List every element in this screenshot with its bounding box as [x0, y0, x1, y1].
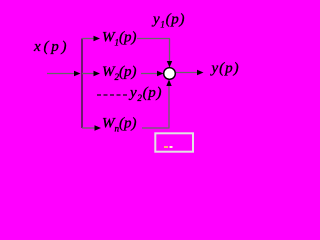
arrowhead middle branch	[94, 71, 101, 76]
svg-text:Wn(p): Wn(p)	[102, 116, 137, 134]
summing junction circle	[164, 68, 176, 80]
svg-text:y(p): y(p)	[210, 61, 240, 77]
svg-text:y2(p): y2(p)	[128, 85, 162, 103]
wire: middle branch into summer	[141, 73, 158, 75]
svg-text:W1(p): W1(p)	[102, 30, 137, 48]
wire: top branch from trunk	[82, 38, 94, 40]
placeholder rectangle	[155, 133, 193, 151]
node A: branch trunk vertical wire	[81, 39, 83, 129]
arrowhead top branch	[94, 36, 101, 41]
placeholder dots	[164, 146, 168, 148]
wire: top branch to corner	[137, 38, 170, 40]
wire: bottom branch to corner	[142, 127, 170, 129]
wire: down into summer	[169, 39, 171, 63]
wire: middle branch from trunk	[82, 73, 94, 75]
arrowhead into summer top	[167, 61, 172, 68]
wire: bottom branch from trunk	[82, 127, 95, 129]
wire: input line into junction	[47, 73, 75, 75]
arrowhead into summer left	[157, 71, 164, 76]
svg-text:W2(p): W2(p)	[102, 64, 137, 82]
wire: output line	[176, 72, 198, 74]
arrowhead output	[197, 70, 204, 75]
wire: dashed continuation	[97, 94, 127, 96]
wire: up into summer	[168, 85, 170, 128]
arrowhead into summer bottom	[166, 80, 171, 87]
svg-text:y1(p): y1(p)	[151, 12, 185, 30]
arrowhead into node A	[74, 71, 81, 76]
svg-text:x(p): x(p)	[33, 39, 69, 55]
arrowhead bottom branch	[95, 125, 102, 130]
